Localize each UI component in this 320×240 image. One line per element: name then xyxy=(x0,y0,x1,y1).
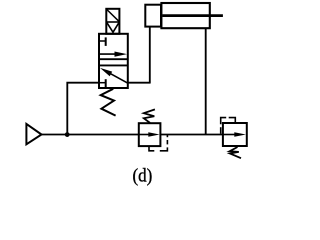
valve V1 top flow arrow xyxy=(100,53,117,55)
solenoid slash xyxy=(107,10,119,22)
valve V2 pilot line (dashed) xyxy=(149,146,154,151)
valve V3 pilot line (dashed) xyxy=(221,118,227,125)
wire cylinder left port down to valve outlet xyxy=(149,27,151,83)
valve V1 inner line lower xyxy=(99,64,128,66)
caption (d) xyxy=(133,165,153,187)
wire bottom rail left xyxy=(42,134,139,136)
valve V1 bottom blocked port marker xyxy=(99,82,106,84)
pilot vee xyxy=(107,23,119,32)
wire bottom rail right xyxy=(160,134,223,136)
solenoid pilot actuator block xyxy=(106,9,119,34)
valve V1 inner line upper xyxy=(99,58,128,60)
wire valve outlet to cylinder left port xyxy=(127,82,150,84)
wire supply riser to valve V1 inlet xyxy=(67,83,99,135)
valve V3 flow arrow xyxy=(223,134,235,136)
junction dot xyxy=(65,132,70,137)
cylinder cap box xyxy=(145,5,161,27)
valve V2 body xyxy=(139,123,161,146)
cylinder rod xyxy=(163,14,223,17)
wire cylinder right port down to bottom rail xyxy=(205,28,207,134)
valve V2 flow arrow xyxy=(139,134,149,136)
valve V3 spring xyxy=(230,147,242,158)
valve V1 bottom diagonal flow arrow xyxy=(109,73,128,83)
pressure source triangle xyxy=(26,124,41,144)
valve V1 body xyxy=(99,34,128,88)
cylinder barrel xyxy=(161,3,209,28)
valve V1 top blocked port marker xyxy=(99,40,106,42)
valve V2 spring xyxy=(144,109,155,123)
valve V1 return spring xyxy=(101,89,116,116)
valve V3 body xyxy=(223,123,247,146)
